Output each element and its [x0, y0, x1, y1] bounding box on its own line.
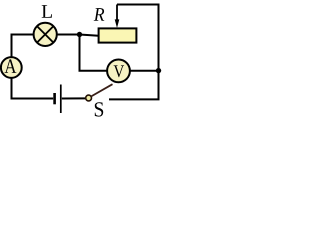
label R	[94, 8, 105, 21]
resistor R	[99, 28, 137, 42]
voltmeter V	[107, 60, 130, 83]
wire lamp to junction A to resistor	[56, 35, 99, 36]
wire junction down to voltmeter	[80, 35, 108, 71]
battery positive plate (long thin)	[60, 85, 62, 114]
switch S pivot circle	[86, 95, 92, 101]
wire voltmeter right to junction dot	[130, 70, 159, 72]
switch S lever	[91, 84, 112, 96]
label L	[42, 5, 52, 18]
node junction dot left	[77, 32, 82, 37]
rheostat wiper arrow	[115, 5, 120, 29]
ammeter A	[1, 57, 22, 78]
node junction dot right	[156, 68, 161, 73]
wire top-left run to lamp	[11, 35, 36, 58]
lamp L	[34, 23, 57, 46]
wire battery to switch	[62, 97, 86, 99]
wire wiper top / right side / bottom right	[109, 5, 159, 100]
battery negative plate (short thick)	[53, 93, 56, 104]
wire ammeter down to battery	[12, 78, 54, 99]
label S	[95, 102, 103, 116]
